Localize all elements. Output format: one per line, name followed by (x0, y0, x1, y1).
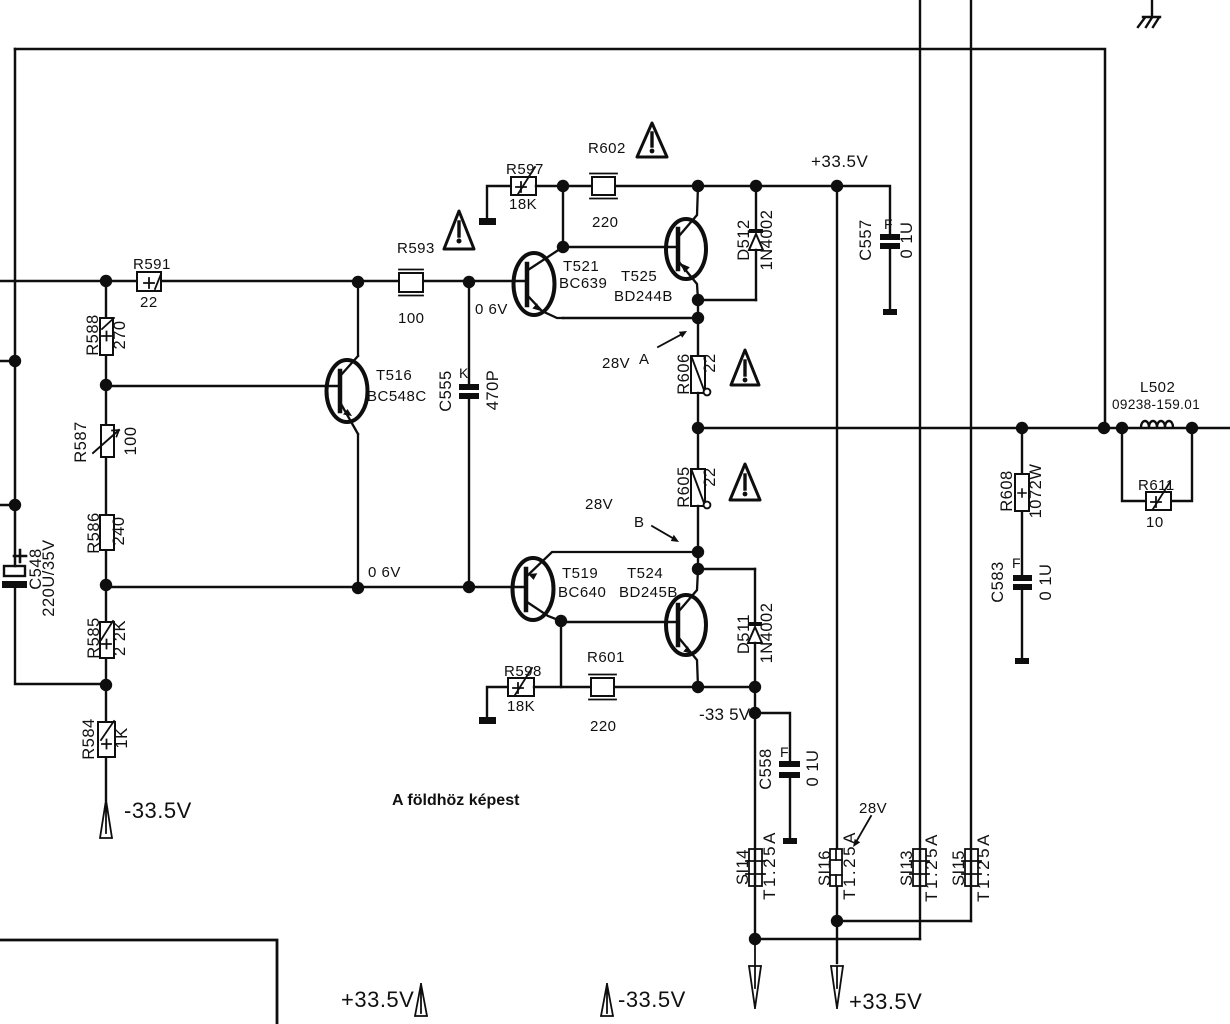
node: -33.5V node (755,713) (749, 707, 761, 719)
svg-text:-33.5V: -33.5V (618, 987, 686, 1012)
fuse SI14 T1.25A (734, 830, 779, 900)
svg-text:1072W: 1072W (1027, 464, 1045, 519)
wire: node A down to R606 (697, 300, 699, 356)
wire: node B branch to D511 (698, 568, 755, 570)
svg-text:22: 22 (140, 294, 158, 311)
wire: rail down to -33.5V node (754, 687, 756, 713)
svg-text:B: B (634, 514, 645, 531)
transistor T524 BD245B (619, 565, 706, 687)
resistor R593 100 (397, 240, 435, 327)
node: junction (106,385) (100, 379, 112, 391)
node: junction (1022,428) (1016, 422, 1028, 434)
power arrow down (SI14 output) (749, 939, 761, 1008)
svg-text:1N4002: 1N4002 (758, 603, 776, 664)
resistor R608 1072W (998, 428, 1045, 575)
wire: top border frame (15, 49, 1105, 428)
svg-text:18K: 18K (507, 698, 535, 715)
wire: SI16-SI15 tie y=921 (837, 920, 971, 922)
svg-text:0 6V: 0 6V (368, 564, 401, 581)
wire: left vertical bus x=106 (105, 281, 107, 800)
svg-text:T519: T519 (562, 565, 598, 582)
wire: main output line y=428 (698, 427, 1230, 429)
wire: R606 to main output line (697, 393, 699, 428)
svg-text:+33.5V: +33.5V (811, 152, 869, 171)
inductor L502 09238-159.01 (1112, 379, 1200, 427)
svg-text:1K: 1K (113, 727, 131, 748)
svg-text:T521: T521 (563, 258, 599, 275)
wire: R605 to node B (697, 506, 699, 552)
svg-text:28V: 28V (859, 800, 887, 817)
warning triangle (right of R605) (730, 464, 760, 500)
svg-text:270: 270 (111, 320, 129, 349)
resistor R586 240 (85, 512, 128, 553)
wire: D512 branch to node A (698, 299, 756, 301)
svg-text:C557: C557 (857, 219, 875, 260)
svg-text:220: 220 (592, 214, 619, 231)
wire: T519 emitter down to -33.5V rail (560, 621, 562, 687)
wire: base line to T519 (0.6V line) (106, 586, 526, 588)
node: junction B (698,552) (692, 546, 704, 558)
node: junction (561,621) (555, 615, 567, 627)
svg-text:18K: 18K (509, 196, 537, 213)
svg-text:470P: 470P (484, 370, 502, 411)
wire: ST16 line from +33.5V rail (x=837) (836, 186, 838, 921)
svg-text:C558: C558 (757, 748, 775, 789)
resistor R585 2.2K (85, 617, 129, 658)
svg-text:BC640: BC640 (558, 584, 606, 601)
box (bottom left block outline) (0, 940, 277, 1024)
resistor R597 18K with ground (479, 161, 544, 225)
wire: base line to T516 (106, 385, 340, 387)
svg-text:220: 220 (590, 718, 617, 735)
resistor R601 220 (587, 649, 625, 735)
svg-text:BC639: BC639 (559, 275, 607, 292)
svg-text:09238-159.01: 09238-159.01 (1112, 397, 1200, 412)
svg-text:K: K (459, 365, 469, 381)
svg-text:28V: 28V (602, 355, 630, 372)
fuse SI15 T1.25A (950, 832, 993, 902)
diode D512 1N4002 (735, 186, 776, 300)
svg-text:R602: R602 (588, 140, 626, 157)
wire: main input line y=281 (0, 280, 527, 282)
node: junction (106,281) (100, 275, 112, 287)
ground (top right chassis) (1138, 0, 1160, 27)
power arrow -33.5V (left) (100, 798, 192, 838)
wire: left border bus (x=15) (14, 49, 17, 566)
wire: SI14-SI13 tie y=939 (755, 938, 920, 940)
capacitor C558 0.1U F (755, 713, 822, 844)
svg-text:R606: R606 (675, 353, 693, 394)
svg-text:F: F (1012, 555, 1021, 571)
svg-text:R608: R608 (998, 470, 1016, 511)
svg-text:R601: R601 (587, 649, 625, 666)
svg-text:0 1U: 0 1U (898, 222, 916, 259)
resistor R605 22 (with tap) (675, 466, 719, 508)
resistor R591 22 (133, 256, 171, 311)
transistor T516 BC548C (327, 282, 427, 588)
svg-text:SI13: SI13 (898, 850, 916, 886)
resistor R611 10 (bypass of L502) (1122, 428, 1192, 531)
svg-text:0 6V: 0 6V (475, 301, 508, 318)
svg-text:R587: R587 (72, 421, 90, 462)
resistor R606 22 (with tap) (675, 353, 719, 395)
svg-text:SI14: SI14 (734, 849, 752, 885)
svg-text:T525: T525 (621, 268, 657, 285)
wire: SI15 line from top (x=971) (970, 0, 972, 921)
wire: from rail down to T521 collector node (562, 186, 564, 247)
label 28V A with arrow (602, 331, 687, 372)
node: junction (563,247) (557, 241, 569, 253)
node: junction (1122,428) (1116, 422, 1128, 434)
svg-text:T1.25A: T1.25A (760, 830, 779, 900)
svg-text:T516: T516 (376, 367, 412, 384)
capacitor C548 220U/35V (electrolytic) (2, 539, 106, 684)
svg-text:R588: R588 (84, 314, 102, 355)
node: junction (469,282) (463, 276, 475, 288)
svg-text:BD245B: BD245B (619, 584, 678, 601)
svg-text:1N4002: 1N4002 (758, 210, 776, 271)
svg-text:22: 22 (701, 353, 719, 372)
svg-text:0 1U: 0 1U (1037, 564, 1055, 601)
resistor R584 1K (80, 718, 131, 759)
svg-text:R591: R591 (133, 256, 171, 273)
wire: main line down to R605 (697, 428, 699, 469)
node: junction (698,569) (692, 563, 704, 575)
svg-text:T524: T524 (627, 565, 663, 582)
diode D511 1N4002 (735, 569, 776, 687)
label 28V with arrow to SI16 (853, 800, 887, 847)
svg-text:C555: C555 (437, 370, 455, 411)
node: junction (106,685) (100, 679, 112, 691)
svg-text:0 1U: 0 1U (804, 750, 822, 787)
svg-text:240: 240 (110, 516, 128, 545)
resistor R598 18K with ground (479, 663, 542, 724)
svg-text:R598: R598 (504, 663, 542, 680)
svg-text:R611: R611 (1138, 477, 1175, 494)
svg-text:D511: D511 (735, 614, 753, 654)
svg-text:-33 5V: -33 5V (699, 705, 751, 724)
node: junction (698,687) (692, 681, 704, 693)
svg-text:SI16: SI16 (816, 850, 834, 886)
transistor T525 BD244B (614, 186, 706, 305)
node: junction (1192,428) (1186, 422, 1198, 434)
svg-text:2 2K: 2 2K (111, 620, 129, 656)
wire: SI13 line from top (x=920) (919, 0, 921, 939)
fuse SI13 T1.25A (898, 832, 941, 902)
node: junction (563,186) (557, 180, 569, 192)
node: junction (106,585) (100, 579, 112, 591)
wire: SI14 feed (x=755) (754, 713, 756, 938)
node: junction (698,186) (692, 180, 704, 192)
power arrow up -33.5V (bottom centre) (601, 984, 686, 1016)
node: junction (837,186) (831, 180, 843, 192)
svg-text:100: 100 (398, 310, 425, 327)
node: left bus junction y=505 with stub (0, 499, 21, 511)
svg-text:R585: R585 (85, 617, 103, 658)
node: junction A (698,318) (692, 312, 704, 324)
svg-text:A földhöz képest: A földhöz képest (392, 792, 520, 809)
label 28V B with arrow (585, 496, 679, 542)
svg-text:R593: R593 (397, 240, 435, 257)
transistor T519 BC640 (513, 552, 699, 621)
power arrow down (SI16 output) +33.5V (831, 966, 922, 1014)
wire: T521 collector to T525 base (563, 246, 677, 248)
node: junction (358,588) (352, 582, 364, 594)
svg-text:F: F (884, 216, 893, 232)
transistor T521 BC639 (514, 247, 608, 318)
svg-text:T1.25A: T1.25A (922, 832, 941, 902)
node: junction (698,428) (692, 422, 704, 434)
capacitor C555 470P (437, 282, 502, 587)
svg-text:R584: R584 (80, 718, 98, 759)
svg-text:R605: R605 (675, 466, 693, 507)
node: junction (698,300) (692, 294, 704, 306)
wire: SI16 line down to arrow (836, 921, 838, 963)
svg-text:-33.5V: -33.5V (124, 798, 192, 823)
node: left bus junction y=361 with stub (0, 355, 21, 367)
power arrow up +33.5V (bottom centre) (341, 984, 427, 1016)
svg-text:10: 10 (1146, 514, 1164, 531)
svg-text:28V: 28V (585, 496, 613, 513)
svg-text:C583: C583 (989, 561, 1007, 602)
svg-text:BD244B: BD244B (614, 288, 673, 305)
svg-text:F: F (780, 744, 789, 760)
warning triangle (right of R606) (731, 350, 759, 385)
node: junction (755,687) (749, 681, 761, 693)
resistor R587 100 (variable) (72, 421, 140, 462)
svg-text:220U/35V: 220U/35V (40, 539, 58, 616)
resistor R588 270 (84, 314, 129, 355)
capacitor C583 0.1U F (989, 555, 1055, 664)
node: junction (469,587) (463, 581, 475, 593)
svg-text:22: 22 (701, 467, 719, 486)
wire: node B vertical (697, 552, 699, 569)
node: junction (1104,428) (1098, 422, 1110, 434)
svg-text:L502: L502 (1140, 379, 1175, 396)
warning triangle (left of R597) (444, 211, 474, 249)
wire: -33.5V rail y=687 (534, 686, 755, 688)
node: junction (837,921) (831, 915, 843, 927)
svg-text:D512: D512 (735, 219, 753, 260)
svg-text:A: A (639, 351, 650, 368)
svg-text:T1.25A: T1.25A (974, 832, 993, 902)
node: junction (755,939) (749, 933, 761, 945)
wire: +33.5V top rail y=186 (536, 186, 890, 234)
svg-text:R586: R586 (85, 512, 103, 553)
svg-text:+33.5V: +33.5V (849, 989, 922, 1014)
svg-text:BC548C: BC548C (367, 388, 427, 405)
capacitor C557 0.1U F (857, 216, 916, 315)
fuse SI16 T1.25A (816, 830, 859, 900)
svg-text:100: 100 (122, 426, 140, 455)
resistor R602 220 (588, 140, 626, 231)
svg-text:+33.5V: +33.5V (341, 987, 414, 1012)
node: junction (756,186) (750, 180, 762, 192)
warning triangle (above R602) (637, 123, 667, 157)
svg-text:R597: R597 (506, 161, 544, 178)
wire: T521 emitter line to node A (563, 317, 698, 319)
node: junction (358,282) (352, 276, 364, 288)
svg-text:SI15: SI15 (950, 850, 968, 886)
wire: T519 emitter to T524 base (561, 621, 675, 623)
